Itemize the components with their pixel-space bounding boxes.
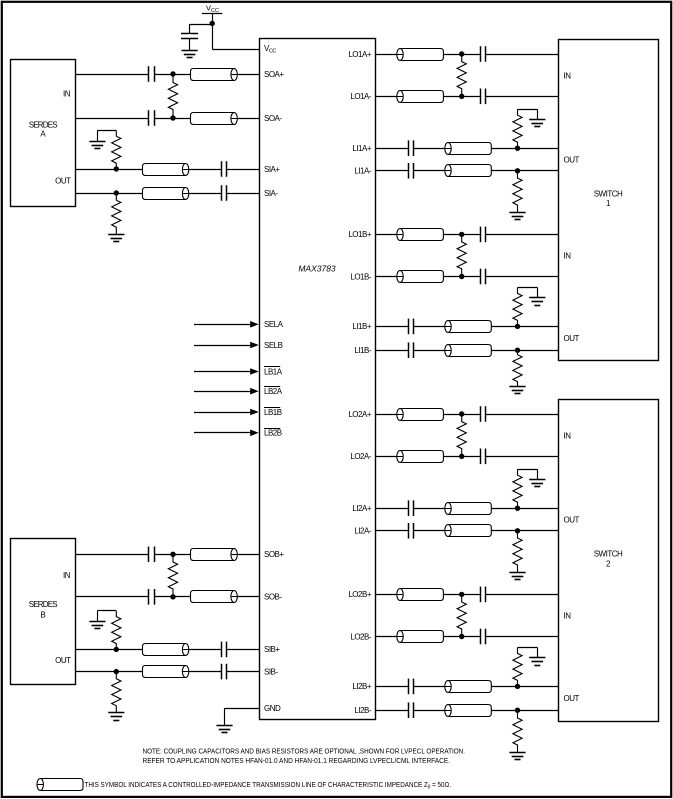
- svg-text:LO1B+: LO1B+: [348, 230, 371, 239]
- svg-text:LI1B-: LI1B-: [354, 346, 371, 355]
- svg-text:LI1B+: LI1B+: [352, 322, 371, 331]
- svg-text:SELA: SELA: [264, 320, 284, 329]
- svg-text:SOA+: SOA+: [264, 70, 284, 79]
- svg-text:LI2A-: LI2A-: [354, 527, 371, 536]
- svg-text:LI2A+: LI2A+: [352, 504, 371, 513]
- svg-text:SIA+: SIA+: [264, 165, 280, 174]
- svg-text:OUT: OUT: [564, 155, 580, 164]
- svg-text:SIB+: SIB+: [264, 645, 280, 654]
- svg-text:LB2B: LB2B: [264, 429, 282, 438]
- svg-text:LO2A+: LO2A+: [348, 410, 371, 419]
- svg-text:SOB-: SOB-: [264, 593, 282, 602]
- svg-text:LO2B-: LO2B-: [350, 632, 371, 641]
- svg-text:SWITCH: SWITCH: [594, 550, 623, 559]
- svg-text:SERDES: SERDES: [29, 600, 58, 609]
- svg-text:B: B: [40, 611, 45, 620]
- svg-text:IN: IN: [564, 71, 572, 80]
- svg-text:IN: IN: [564, 251, 572, 260]
- svg-text:OUT: OUT: [564, 334, 580, 343]
- svg-text:LB1B: LB1B: [264, 408, 282, 417]
- svg-text:LI1A-: LI1A-: [354, 167, 371, 176]
- svg-text:OUT: OUT: [564, 694, 580, 703]
- svg-text:LB1A: LB1A: [264, 367, 283, 376]
- svg-text:LO2B+: LO2B+: [348, 590, 371, 599]
- svg-text:LI2B+: LI2B+: [352, 682, 371, 691]
- svg-text:IN: IN: [564, 432, 572, 441]
- svg-text:LI1A+: LI1A+: [352, 144, 371, 153]
- svg-text:GND: GND: [264, 704, 281, 713]
- svg-text:IN: IN: [564, 612, 572, 621]
- svg-text:LO1A+: LO1A+: [348, 50, 371, 59]
- svg-text:OUT: OUT: [564, 516, 580, 525]
- svg-text:LO1A-: LO1A-: [350, 92, 371, 101]
- svg-text:LI2B-: LI2B-: [354, 706, 371, 715]
- svg-text:IN: IN: [63, 571, 71, 580]
- svg-text:SWITCH: SWITCH: [594, 189, 623, 198]
- svg-text:LB2A: LB2A: [264, 387, 283, 396]
- svg-text:OUT: OUT: [55, 656, 71, 665]
- svg-text:LO1B-: LO1B-: [350, 272, 371, 281]
- svg-text:MAX3783: MAX3783: [298, 264, 336, 274]
- svg-text:SOB+: SOB+: [264, 550, 284, 559]
- svg-text:SOA-: SOA-: [264, 114, 282, 123]
- svg-text:SERDES: SERDES: [29, 121, 58, 130]
- svg-text:REFER TO APPLICATION NOTES HFA: REFER TO APPLICATION NOTES HFAN-01.0 AND…: [143, 758, 451, 765]
- svg-text:OUT: OUT: [55, 177, 71, 186]
- svg-text:LO2A-: LO2A-: [350, 452, 371, 461]
- svg-text:SELB: SELB: [264, 341, 283, 350]
- svg-text:NOTE: COUPLING CAPACITORS AND: NOTE: COUPLING CAPACITORS AND BIAS RESIS…: [143, 748, 466, 755]
- svg-text:SIB-: SIB-: [264, 667, 278, 676]
- svg-text:SIA-: SIA-: [264, 189, 278, 198]
- svg-text:IN: IN: [63, 90, 71, 99]
